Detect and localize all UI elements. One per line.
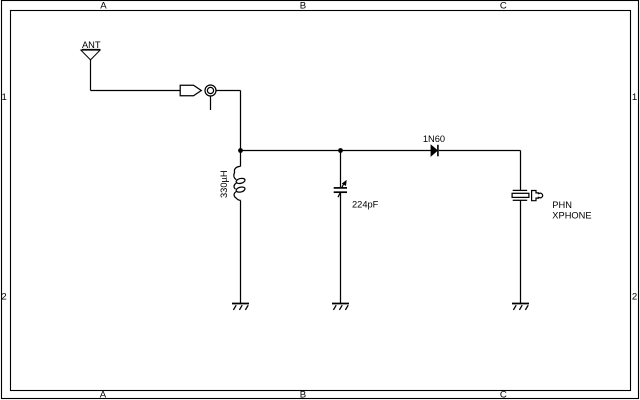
svg-text:A: A (100, 389, 107, 400)
svg-text:330µH: 330µH (219, 170, 229, 198)
svg-text:C: C (500, 389, 507, 400)
svg-text:1: 1 (2, 92, 7, 103)
svg-text:PHN: PHN (552, 200, 572, 210)
svg-text:2: 2 (1, 292, 6, 303)
svg-text:ANT: ANT (82, 40, 101, 50)
svg-text:B: B (300, 1, 306, 12)
svg-text:1: 1 (632, 92, 637, 103)
svg-text:C: C (500, 1, 507, 12)
svg-text:A: A (100, 1, 107, 12)
svg-text:224pF: 224pF (352, 200, 379, 210)
svg-text:1N60: 1N60 (423, 134, 445, 144)
svg-text:B: B (300, 389, 306, 400)
svg-text:XPHONE: XPHONE (552, 211, 591, 221)
svg-text:2: 2 (632, 292, 637, 303)
